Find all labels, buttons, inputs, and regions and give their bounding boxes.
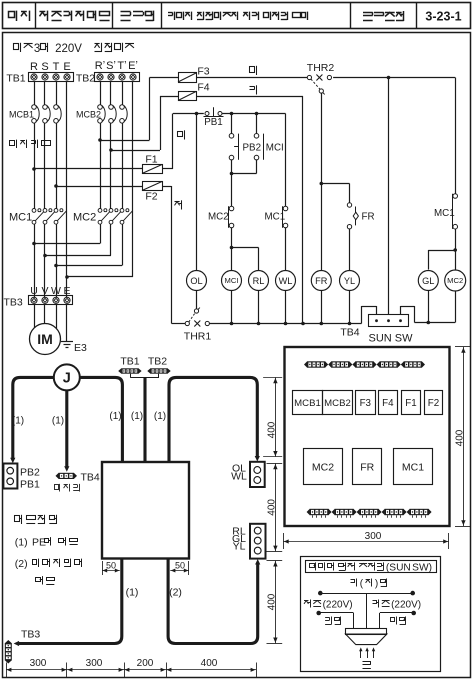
phase labels R S T E for TB1 [30, 61, 71, 73]
bottom dimension labels [30, 658, 218, 669]
svg-text:50: 50 [175, 561, 185, 571]
svg-text:SUN SW: SUN SW [369, 333, 414, 345]
wire E' joins E [67, 276, 133, 278]
wire OL to THR1 blade [196, 291, 198, 309]
title block column lines [36, 3, 417, 29]
wire R' MCB2 to MC2 [98, 123, 102, 208]
svg-text:MCB1: MCB1 [9, 110, 34, 120]
output wire jeok saek red [380, 611, 417, 629]
svg-text:300: 300 [86, 658, 103, 669]
svg-text:TB4: TB4 [340, 327, 359, 339]
sun switch title bar [306, 561, 437, 574]
label chulryeok 220V output [373, 600, 422, 611]
title: jeonjeonsi yebi jeonwon motor operation [168, 12, 308, 20]
conduit run panel bottom to RL/GL/YL (flexible) [168, 559, 260, 644]
label (1) on TB run [131, 411, 143, 422]
label ipryeok 220V input [304, 600, 353, 611]
svg-text:Tʼ: Tʼ [117, 60, 126, 72]
svg-text:F3: F3 [197, 66, 209, 78]
svg-text:300: 300 [30, 658, 47, 669]
svg-text:F2: F2 [428, 398, 439, 409]
svg-text:MC1: MC1 [402, 462, 424, 474]
svg-text:Rʼ: Rʼ [95, 60, 105, 72]
panel component F4 [379, 391, 398, 415]
flicker relay contact FR with diamond [347, 203, 374, 271]
svg-text:400: 400 [267, 421, 278, 438]
wires MC1 outputs to TB3 [32, 224, 58, 297]
svg-text:MC2: MC2 [312, 462, 334, 474]
svg-text:FR: FR [362, 212, 375, 223]
fuse F4 with feed from S' phase [111, 82, 303, 151]
svg-text:Sʼ: Sʼ [106, 60, 116, 72]
bottom dimension ticks [7, 663, 257, 678]
conduit run panel to OL/WL lamp box [169, 377, 260, 461]
svg-text:400: 400 [267, 593, 278, 610]
svg-text:(1): (1) [52, 416, 64, 427]
dimension 400 upper (J line to OL/WL box) [267, 377, 278, 456]
dimension 50 right [170, 561, 189, 576]
svg-text:3: 3 [34, 43, 40, 55]
svg-text:MC2: MC2 [73, 212, 96, 224]
pilot lamp GL [418, 271, 438, 291]
fuse F1 with feed from R phase [34, 114, 173, 174]
svg-text:400: 400 [201, 658, 218, 669]
svg-text:PB2: PB2 [243, 143, 262, 154]
control panel box [285, 347, 450, 526]
wires TB1 to MCB1 [35, 82, 57, 105]
wire SUN SW centre terminal to THR2 line [388, 78, 390, 316]
svg-text:MCI: MCI [225, 276, 239, 285]
label (1) on left run [12, 416, 24, 427]
label heuk (black) on F4 line [250, 85, 257, 94]
pilot lamp RL [249, 271, 269, 291]
terminal block TB4 with SUN SW [340, 306, 413, 345]
dimension 400 middle [267, 463, 278, 551]
panel dimension 400 [455, 347, 471, 527]
sun switch supply wire with terminals [318, 591, 415, 629]
svg-text:): ) [375, 579, 378, 590]
wire S' MCB2 to MC2 [109, 123, 113, 208]
dimension 50 left [102, 561, 120, 576]
label power 3-phase 220V [14, 43, 83, 55]
label heuk(cheong)saek black(blue) wire [351, 579, 387, 590]
svg-text:MC1: MC1 [9, 212, 32, 224]
terminal block TB3 [4, 296, 73, 309]
label jeok cheong baek (red blue white) [55, 484, 80, 492]
contactor MC1 main contacts [9, 209, 66, 225]
label (2) on bottom right run [169, 587, 182, 599]
work number 3-23-1 [425, 10, 461, 24]
contact MC1 (NC) for MC2 coil [434, 194, 458, 229]
svg-text:MCB1: MCB1 [294, 398, 321, 409]
svg-text:400: 400 [267, 499, 278, 516]
connector bracket TB1 TB2 to panel conduit [131, 374, 160, 378]
svg-text:E: E [63, 61, 70, 73]
line THR2 to right with taps [333, 76, 455, 80]
svg-text:TB3: TB3 [21, 629, 40, 641]
pilot lamp WL [276, 271, 296, 291]
control feed line from F1 [173, 112, 204, 116]
induction motor IM [30, 324, 61, 355]
phase labels R' S' T' E' for TB2 [95, 60, 138, 72]
panel component F3 [356, 391, 376, 415]
terminal block TB1 [6, 73, 73, 85]
svg-text:400: 400 [455, 429, 466, 446]
conduit run J to panel box [80, 377, 123, 461]
breaker MCB1 [9, 105, 61, 123]
svg-text:(2): (2) [15, 558, 28, 570]
title cell: dongryeok baeseon gongsa (power wiring work) [40, 11, 110, 21]
svg-text:(1): (1) [126, 587, 139, 599]
wire to OL lamp [196, 114, 198, 271]
panel component FR [353, 449, 382, 485]
wire E earth TB1 to TB3 [65, 82, 69, 298]
svg-text:TB2: TB2 [76, 73, 95, 85]
interlock contact MC2 (NC) [208, 174, 234, 228]
svg-text:PB2: PB2 [20, 466, 40, 478]
svg-text:S: S [41, 61, 48, 73]
svg-text:(1): (1) [154, 411, 166, 422]
wire down to MC1 NC contact right side [455, 78, 457, 194]
svg-text:F1: F1 [145, 154, 157, 166]
svg-text:MCB2: MCB2 [324, 398, 351, 409]
branch to FR timer contact [321, 184, 349, 203]
label (1) on J down run [52, 416, 64, 427]
wire R phase MCB1 to MC1 [32, 123, 36, 208]
panel component F2 [425, 391, 443, 415]
svg-text:PE: PE [32, 537, 46, 549]
panel component MCB2 [323, 391, 353, 415]
title cell: jikjong (trade) [9, 11, 30, 21]
label (1) on lamp run [154, 411, 166, 422]
panel component MC2 [304, 449, 343, 485]
svg-text:F4: F4 [197, 82, 209, 94]
svg-text:THR1: THR1 [184, 331, 212, 343]
label jeok (red) on F3 line [250, 66, 257, 75]
input wire baek saek white [316, 611, 353, 629]
svg-text:F3: F3 [360, 398, 372, 409]
distribution board outline box [102, 462, 189, 559]
label (1) on J-panel run [109, 411, 121, 422]
conduit run J down to TB4 [64, 390, 69, 471]
wire THR2 blade down to FR branch [320, 93, 324, 270]
panel component F1 [402, 391, 421, 415]
svg-text:(1): (1) [109, 411, 121, 422]
label jeok (red) on F1 riser [178, 130, 185, 139]
svg-text:(1): (1) [12, 416, 24, 427]
label (1) on bottom left run [126, 587, 139, 599]
svg-text:(220V): (220V) [323, 600, 353, 611]
light arrows [359, 647, 375, 658]
labels U V W E [30, 285, 70, 297]
title cell: jakpummyeong (work title) [121, 11, 154, 21]
svg-text:200: 200 [137, 658, 154, 669]
thermal relay contact THR1 [184, 308, 212, 343]
bottom dimension line 300/300/200/400 [6, 668, 256, 672]
terminal strips TB1 TB2 in layout [118, 356, 171, 374]
svg-text:RL: RL [253, 276, 265, 286]
svg-text:OL: OL [190, 276, 202, 286]
svg-text:WL: WL [231, 471, 247, 483]
contactor coil MC2 [445, 270, 466, 291]
panel bottom terminal strip [307, 509, 432, 518]
pilot lamp FR [311, 271, 331, 291]
label standby power (yebi jeonwon) [95, 43, 135, 52]
fuse F3 with feed from R' phase [100, 66, 307, 141]
svg-text:(2): (2) [169, 587, 182, 599]
svg-text:MC1: MC1 [434, 208, 455, 219]
wire E' TB2 down [132, 82, 134, 278]
wire F4 output down to bottom bus [302, 96, 304, 323]
pushbutton PB1 (NC stop) [204, 107, 224, 128]
panel dimension 300 [283, 531, 448, 549]
svg-text:FR: FR [315, 276, 328, 286]
note (1) PE pipe work [15, 537, 78, 549]
label bit (light) [363, 661, 371, 668]
thermal relay contact THR2 [307, 62, 335, 94]
fuse F2 with feed from T phase [56, 182, 172, 323]
wire SUN SW output to GL and MC2 returns [401, 291, 456, 325]
svg-text:YL: YL [344, 276, 355, 286]
svg-text:TB4: TB4 [81, 472, 100, 484]
svg-text:PB1: PB1 [20, 478, 40, 490]
svg-text:(SUN: (SUN [386, 563, 411, 574]
wires TB2 to MCB2 [101, 82, 123, 105]
wire T' MCB2 to MC2 [122, 123, 124, 208]
lamp box OL WL [231, 462, 265, 487]
photocell body [346, 629, 387, 645]
svg-text:PB1: PB1 [204, 117, 223, 128]
svg-text:(1): (1) [15, 537, 28, 549]
label hwang (yellow) on F2 drop wire [175, 200, 182, 209]
pilot lamp YL [340, 271, 360, 291]
svg-text:MC2: MC2 [447, 276, 463, 285]
page outer frame / title block [3, 3, 471, 29]
svg-text:TB2: TB2 [148, 356, 167, 368]
panel component MC1 [394, 449, 433, 485]
pushbutton PB2 (NO start) [229, 114, 261, 160]
svg-text:TB1: TB1 [120, 356, 139, 368]
conduit run TB1/TB2 to panel box [143, 378, 146, 461]
terminal block TB2 [76, 73, 140, 85]
wires TB3 to motor [35, 305, 57, 328]
svg-text:3-23-1: 3-23-1 [425, 10, 461, 24]
svg-text:YL: YL [233, 541, 246, 553]
panel top terminal strip [304, 361, 425, 367]
contact MC1 for WL lamp [265, 114, 288, 271]
terminal strip TB3 in layout [5, 629, 41, 664]
svg-text:WL: WL [279, 276, 293, 286]
svg-text:F1: F1 [405, 398, 416, 409]
svg-text:(1): (1) [131, 411, 143, 422]
svg-text:220V: 220V [55, 43, 82, 55]
terminal strip TB4 in layout [56, 472, 100, 484]
lamp box RL GL YL [232, 524, 266, 559]
svg-text:F2: F2 [145, 191, 157, 203]
svg-text:FR: FR [360, 462, 374, 474]
pushbutton station PB2/PB1 box [3, 464, 40, 491]
svg-text:SW): SW) [412, 563, 432, 574]
breaker MCB2 [76, 105, 127, 123]
svg-text:E3: E3 [74, 342, 87, 354]
control line PB1 to WL branch [222, 112, 285, 116]
auxiliary contact MC1 (seal-in), MCI [254, 114, 284, 160]
contactor coil MC1 (MCI) [222, 271, 242, 291]
wire colour labels jeok cheong heuk rok (red blue black green) [10, 140, 51, 148]
svg-text:T: T [53, 61, 60, 73]
title cell: jakpum beonho (work number) [363, 11, 404, 21]
bottom bus wire [172, 322, 362, 326]
lamp bottom return wires [232, 291, 350, 324]
svg-text:TB3: TB3 [4, 297, 23, 309]
junction joining PB2 and MCI [230, 160, 257, 175]
wire MC1 contact to MC2 coil with GL branch [428, 229, 457, 270]
svg-text:R: R [30, 61, 38, 73]
svg-text:50: 50 [106, 561, 116, 571]
conduit run panel bottom to TB3 (PE pipe) [14, 559, 122, 647]
wire T phase MCB1 to MC1 [54, 123, 58, 208]
wires MC2 outputs join MC1 outputs [34, 224, 123, 265]
svg-text:THR2: THR2 [307, 62, 335, 74]
pilot lamp OL [187, 271, 207, 291]
svg-text:MCI: MCI [266, 143, 284, 154]
svg-text:GL: GL [422, 276, 434, 286]
panel component MCB1 [293, 391, 323, 415]
junction box J [54, 364, 80, 390]
svg-text:F4: F4 [382, 398, 394, 409]
svg-text:MCB2: MCB2 [76, 110, 101, 120]
conduit run J to PB box (PE pipe) [10, 377, 54, 463]
svg-text:Eʼ: Eʼ [128, 60, 138, 72]
svg-text:MC1: MC1 [265, 212, 286, 223]
note (2) flexible pipe work [15, 558, 82, 570]
earth wire and ground symbol E3 [61, 305, 87, 354]
contactor MC2 main contacts [73, 209, 132, 225]
wire S phase MCB1 to MC1 [44, 123, 46, 208]
vertical dimension column ticks [263, 378, 282, 644]
svg-text:(220V): (220V) [391, 600, 421, 611]
svg-text:J: J [63, 371, 71, 387]
svg-text:MC2: MC2 [208, 212, 229, 223]
svg-text:300: 300 [365, 531, 382, 542]
construction method notes (gongsa bangbeop) [15, 515, 57, 524]
svg-text:TB1: TB1 [6, 73, 25, 85]
sun switch detail box [301, 557, 441, 672]
wire MC2 contact to MC1 coil with RL branch [230, 228, 259, 271]
dimension 400 lower [267, 561, 278, 644]
svg-text:IM: IM [37, 331, 53, 347]
